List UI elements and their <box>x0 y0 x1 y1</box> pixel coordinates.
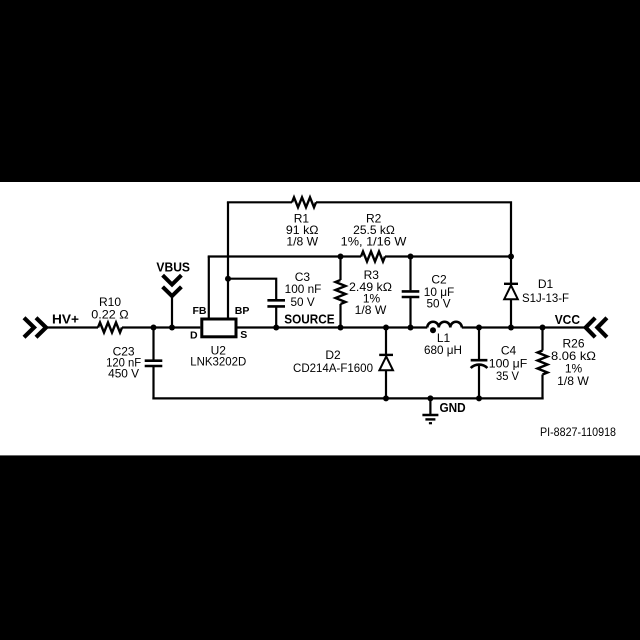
wire R26 top lead <box>541 328 543 351</box>
svg-text:0.22 Ω: 0.22 Ω <box>91 308 128 322</box>
U2 pin FB lead <box>208 257 210 318</box>
L1 polarity dot <box>430 327 436 333</box>
U2 pin BP lead <box>227 202 229 317</box>
wire ground rail <box>152 397 543 399</box>
svg-text:GND: GND <box>440 400 466 415</box>
svg-text:D: D <box>190 329 198 341</box>
junction ground symbol / ground rail <box>427 395 433 401</box>
svg-text:100 nF: 100 nF <box>285 282 322 296</box>
svg-text:SOURCE: SOURCE <box>284 311 335 326</box>
wire C2 bottom lead <box>409 297 411 328</box>
wire L1 to C4 node <box>462 326 479 328</box>
wire D2 node to L1 <box>386 326 427 328</box>
resistor R1 <box>292 197 316 207</box>
junction D2 / source rail <box>383 325 389 331</box>
wire C4 bottom lead <box>478 365 480 398</box>
wire R26 bottom lead to ground rail <box>541 375 543 400</box>
capacitor C23 <box>145 361 163 366</box>
junction D2 / ground rail <box>383 395 389 401</box>
junction R1 / R2 / D1 <box>508 254 514 260</box>
svg-text:450 V: 450 V <box>108 367 139 381</box>
capacitor C3 <box>267 300 285 306</box>
capacitor C4 (polarized) <box>471 360 488 368</box>
wire C4 top lead <box>478 328 480 360</box>
svg-text:CD214A-F1600: CD214A-F1600 <box>293 361 373 375</box>
diode D1 cathode bar <box>504 283 518 285</box>
resistor R10 <box>98 323 122 333</box>
svg-text:D1: D1 <box>538 277 554 291</box>
svg-text:35 V: 35 V <box>496 369 519 383</box>
wire C23 top lead <box>152 328 154 361</box>
svg-text:D2: D2 <box>325 348 341 362</box>
svg-text:HV+: HV+ <box>52 312 79 327</box>
wire D1 top lead <box>510 257 512 284</box>
inductor L1 <box>427 322 462 328</box>
svg-text:1/8 W: 1/8 W <box>286 235 318 249</box>
wire R2 to C2 node <box>385 255 411 257</box>
wire C23 node to VBUS node <box>154 326 173 328</box>
junction C2 / feedback wire <box>408 254 414 260</box>
junction C2 / source rail <box>408 325 414 331</box>
wire C2 top lead <box>409 257 411 291</box>
resistor R3 <box>336 280 346 304</box>
IC U2 body <box>202 319 236 337</box>
wire C2 node to D1 node <box>411 255 512 257</box>
junction BP / C3 branch <box>225 276 231 282</box>
svg-text:S1J-13-F: S1J-13-F <box>522 291 569 305</box>
power symbol VBUS <box>163 275 182 296</box>
wire R26 node to VCC port <box>543 326 586 328</box>
wire U2 S pin to D2 node <box>236 326 386 328</box>
wire VBUS node to U2 D pin <box>172 326 200 328</box>
wire C3 bottom lead <box>275 306 277 327</box>
junction VBUS / main rail <box>169 325 175 331</box>
diode D2 cathode bar <box>379 354 393 356</box>
resistor R26 <box>538 351 548 375</box>
svg-text:50 V: 50 V <box>291 295 315 309</box>
svg-text:PI-8827-110918: PI-8827-110918 <box>540 425 616 439</box>
svg-text:680 μH: 680 μH <box>424 343 462 357</box>
junction R26 / vcc rail <box>540 325 546 331</box>
wire VBUS symbol stem <box>171 294 173 328</box>
wire R10 to C23 node <box>122 326 154 328</box>
svg-text:S: S <box>240 329 247 341</box>
junction R3 / feedback wire <box>338 254 344 260</box>
wire U2 FB pin to R3 node <box>208 255 341 257</box>
wire D1 node to R26 node <box>511 326 543 328</box>
svg-text:VCC: VCC <box>555 312 581 327</box>
svg-text:50 V: 50 V <box>426 296 450 310</box>
wire BP node to C3 <box>228 279 276 300</box>
wire R1 to D1 top node <box>316 202 511 256</box>
wire D2 bottom lead <box>385 370 387 398</box>
junction C4 / vcc rail <box>476 325 482 331</box>
wire R3 top lead <box>339 257 341 281</box>
ground symbol <box>422 398 438 423</box>
svg-text:FB: FB <box>193 305 207 317</box>
svg-text:1/8 W: 1/8 W <box>557 374 589 388</box>
junction C3 / source rail <box>273 325 279 331</box>
svg-text:1/8 W: 1/8 W <box>355 303 387 317</box>
diode D1 <box>504 285 518 299</box>
svg-text:BP: BP <box>235 305 250 317</box>
capacitor C2 <box>402 291 420 297</box>
svg-text:LNK3202D: LNK3202D <box>190 354 246 368</box>
resistor R2 <box>361 252 385 262</box>
junction C23 / main rail <box>151 325 157 331</box>
input port HV+ chevrons <box>24 318 46 337</box>
output port VCC chevrons <box>586 318 607 337</box>
diode D2 <box>379 356 393 370</box>
R3 bottom lead <box>339 304 341 328</box>
junction R3 / source rail <box>338 325 344 331</box>
wire C23 bottom lead to ground rail <box>152 366 154 400</box>
wire R3 node to R2 <box>341 255 362 257</box>
svg-text:C4: C4 <box>501 343 517 357</box>
wire C4 node to D1 node <box>479 326 511 328</box>
wire D2 top lead <box>385 328 387 355</box>
wire top rail BP to R1 <box>227 201 292 203</box>
wire D1 bottom lead <box>510 299 512 327</box>
svg-text:VBUS: VBUS <box>156 259 190 274</box>
wire HV+ input to R10 <box>46 326 98 328</box>
junction D1 / vcc rail <box>508 325 514 331</box>
svg-text:1%, 1/16 W: 1%, 1/16 W <box>341 235 407 249</box>
junction C4 / ground rail <box>476 395 482 401</box>
